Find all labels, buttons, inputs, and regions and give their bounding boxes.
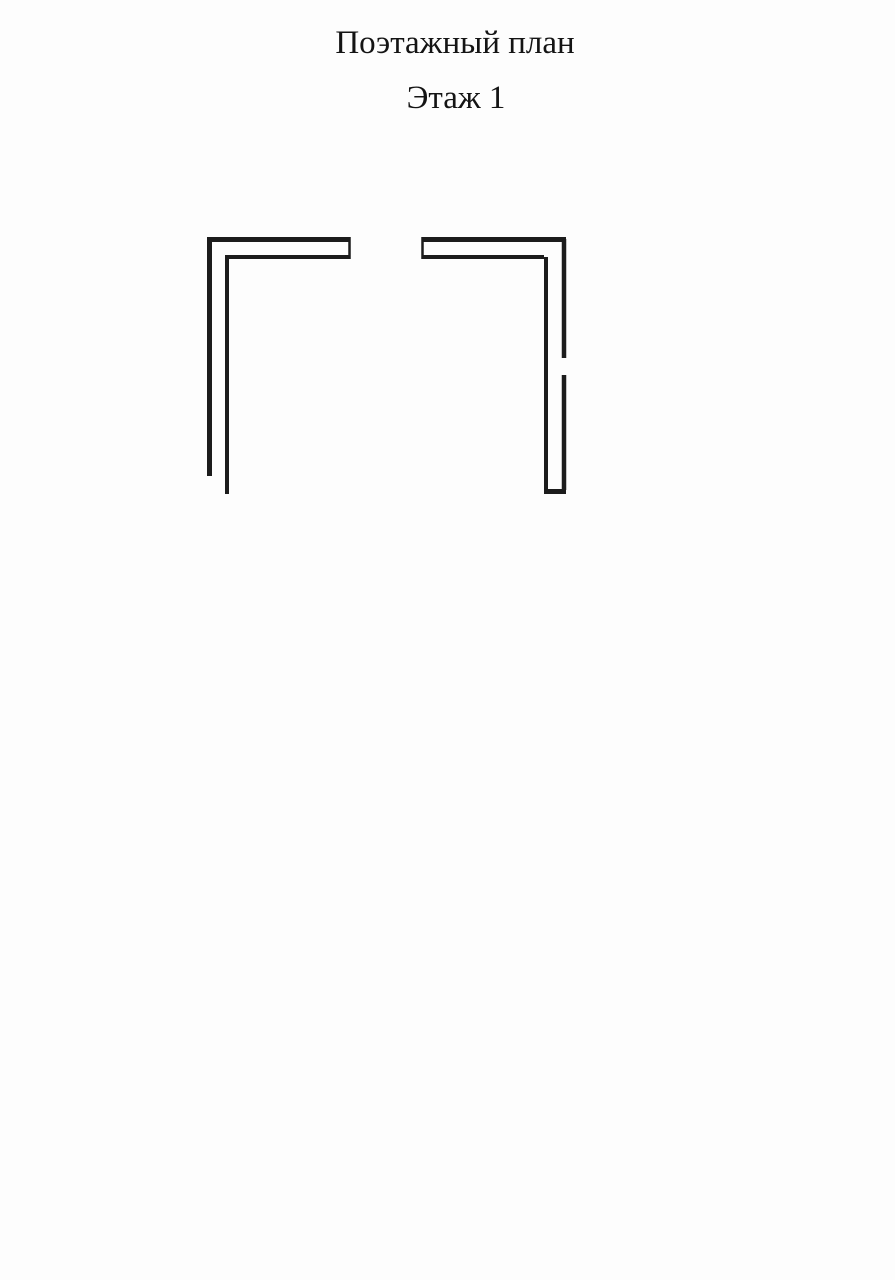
wall end cap at top gap right	[421, 237, 424, 259]
wall top-right outer segment	[422, 237, 566, 242]
svg-text:Этаж 1: Этаж 1	[407, 80, 506, 116]
wall end cap at top gap left	[348, 237, 351, 259]
wall top-left inner	[227, 257, 349, 494]
wall mid vertical left line (room3 east / stair wall)	[544, 257, 548, 490]
wall top-right inner segment	[422, 255, 544, 259]
wall mid vertical right line lower part	[562, 375, 567, 490]
wall mid vertical right line upper part	[562, 239, 567, 358]
svg-text:Поэтажный план: Поэтажный план	[335, 25, 574, 61]
wall top-left outer (room 3 north + west)	[210, 240, 350, 477]
wall mid vertical bottom cap	[544, 489, 566, 494]
